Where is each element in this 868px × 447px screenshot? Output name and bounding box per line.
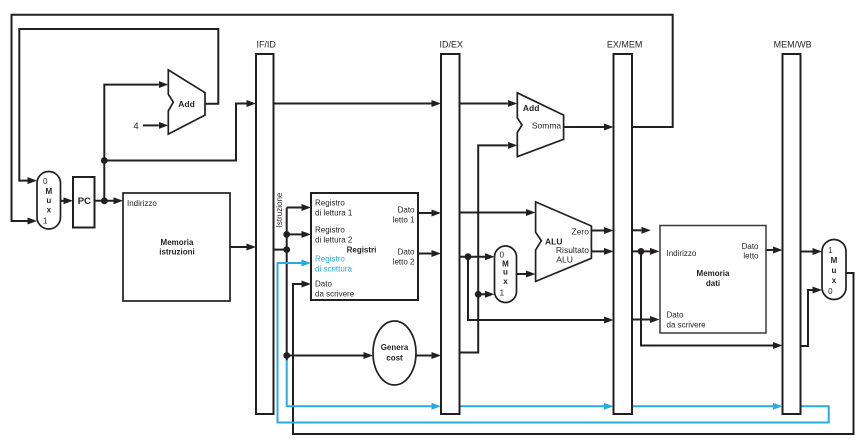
svg-text:di scrittura: di scrittura: [315, 265, 352, 274]
wire: IF/ID instruction output to bus: [274, 249, 287, 251]
wire: ID/EX to ALU top input: [460, 212, 527, 214]
wire: branch Add Somma output to EX/MEM: [564, 126, 604, 128]
wire: PC value to IF/ID: [104, 104, 246, 161]
wire: mux to PC: [61, 200, 64, 202]
junction immediate to mux: [475, 291, 482, 298]
wire: instruction to Registro di lettura 2: [287, 233, 302, 235]
wire: MEM/WB ALU result to WB mux input 0: [801, 290, 813, 346]
register PC: [73, 177, 95, 228]
svg-text:ALU: ALU: [556, 255, 573, 265]
svg-text:0: 0: [828, 287, 833, 296]
ALU: [536, 202, 592, 282]
svg-text:ID/EX: ID/EX: [439, 39, 463, 49]
svg-text:IF/ID: IF/ID: [256, 39, 276, 49]
wire: constant 4 to Add bottom input: [143, 124, 159, 126]
svg-text:dati: dati: [706, 279, 720, 288]
wire: PC value IF/ID to ID/EX: [274, 103, 432, 105]
svg-text:MEM/WB: MEM/WB: [774, 39, 812, 49]
wire: write register number cyan EX/MEM to MEM/WB: [632, 405, 773, 407]
svg-text:letto 1: letto 1: [393, 215, 415, 224]
wire: instruction to Genera cost: [287, 355, 364, 357]
register IF/ID: [256, 54, 274, 414]
junction PC output: [101, 197, 108, 204]
wire: ALU Zero to EX/MEM: [591, 230, 604, 232]
wire: Dato letto 2 branch to EX/MEM write data: [468, 257, 604, 320]
svg-text:EX/MEM: EX/MEM: [607, 39, 643, 49]
wire: PC+4 from Add back to PC mux input 0: [19, 29, 218, 181]
svg-text:letto: letto: [743, 252, 759, 261]
svg-text:Zero: Zero: [572, 226, 590, 236]
svg-text:Indirizzo: Indirizzo: [667, 249, 697, 258]
junction Dato letto 2: [465, 253, 472, 260]
svg-text:Dato: Dato: [398, 206, 415, 215]
junction instruction bus lettura 2: [283, 231, 290, 238]
svg-text:Istruzione: Istruzione: [275, 192, 284, 227]
svg-text:Registro: Registro: [315, 199, 345, 208]
svg-text:0: 0: [500, 251, 505, 260]
wire: write back data to Registri Dato da scrivere: [293, 273, 854, 434]
svg-text:Dato: Dato: [742, 242, 759, 251]
wire: branch target loop EX/MEM to PC mux input 1: [12, 15, 673, 221]
svg-text:u: u: [832, 266, 837, 275]
wire: MEM/WB Dato letto to WB mux input 1: [801, 251, 813, 253]
wire: instruction bus vertical: [286, 208, 288, 362]
wire: write register number cyan MEM/WB back to Registro di scrittura: [278, 263, 829, 423]
wire: Dato letto 2 to ID/EX: [418, 253, 432, 255]
register ID/EX: [441, 54, 460, 414]
wire: data memory Dato letto to MEM/WB: [766, 249, 773, 251]
adder Add (PC+4): [168, 70, 205, 134]
svg-text:Dato: Dato: [398, 248, 415, 257]
mux M1 (PC source): [37, 172, 61, 230]
svg-text:cost: cost: [386, 353, 403, 362]
svg-text:Registro: Registro: [315, 255, 345, 264]
block Memoria istruzioni: [123, 193, 230, 301]
wire: PC to instruction memory Indirizzo: [95, 200, 114, 202]
svg-text:Somma: Somma: [532, 121, 562, 131]
svg-text:M: M: [46, 187, 53, 196]
svg-text:Registro: Registro: [315, 226, 345, 235]
junction ALU result: [638, 248, 645, 255]
svg-text:Add: Add: [523, 103, 540, 113]
svg-text:da scrivere: da scrivere: [667, 320, 707, 329]
svg-text:x: x: [832, 276, 837, 285]
wire: ALU result to data memory Indirizzo: [632, 250, 650, 252]
junction on PC line to IF/ID: [101, 157, 108, 164]
svg-text:da scrivere: da scrivere: [315, 290, 355, 299]
svg-text:Add: Add: [178, 99, 195, 109]
svg-text:0: 0: [43, 177, 48, 186]
svg-text:letto 2: letto 2: [393, 257, 415, 266]
svg-text:1: 1: [500, 289, 505, 298]
wire: ID/EX Dato letto 2 to ALU mux input 0: [460, 256, 486, 258]
wire: Zero stub out of EX/MEM: [632, 229, 641, 231]
wire: write register number cyan to ID/EX: [287, 360, 432, 406]
svg-text:Memoria: Memoria: [697, 269, 730, 278]
wire: Genera cost output to ID/EX: [416, 355, 432, 357]
block Registri: [311, 193, 418, 300]
svg-text:4: 4: [133, 121, 138, 132]
wire: instruction to Registro di lettura 1: [287, 207, 302, 209]
junction instruction bus Genera cost: [283, 352, 290, 359]
svg-text:x: x: [47, 206, 52, 215]
svg-text:Registri: Registri: [347, 245, 377, 254]
svg-text:Genera: Genera: [381, 343, 409, 352]
mux M3 (write back): [822, 240, 846, 300]
mux M2 (ALU source): [495, 246, 517, 303]
wire: write register number cyan ID/EX to EX/MEM: [460, 405, 605, 407]
svg-text:M: M: [831, 256, 838, 265]
junction instruction bus IF/ID output: [283, 246, 290, 253]
wire: immediate to ALU mux input 1: [478, 293, 485, 295]
svg-text:PC: PC: [78, 196, 91, 207]
register EX/MEM: [614, 54, 633, 414]
svg-text:u: u: [46, 196, 51, 205]
wire: instruction memory output to IF/ID: [230, 246, 247, 248]
wire: ALU result bypass to MEM/WB: [641, 251, 773, 345]
adder Add (branch target): [517, 93, 563, 157]
block Memoria dati: [660, 226, 766, 334]
wire: write data to data memory: [632, 319, 650, 321]
svg-text:istruzioni: istruzioni: [159, 248, 195, 257]
svg-text:u: u: [503, 268, 508, 277]
svg-text:di lettura 1: di lettura 1: [315, 208, 353, 217]
wire: ALU mux output to ALU: [517, 273, 527, 275]
svg-text:Dato: Dato: [667, 311, 684, 320]
wire: Dato letto 1 to ID/EX: [418, 212, 432, 214]
wire: ALU result to EX/MEM: [591, 250, 604, 252]
svg-text:x: x: [503, 277, 508, 286]
svg-text:Memoria: Memoria: [161, 238, 194, 247]
svg-text:Dato: Dato: [315, 280, 332, 289]
wire: PC value up to Add top input: [104, 85, 159, 201]
svg-text:1: 1: [828, 246, 833, 255]
wire: ID/EX to branch Add top input: [460, 103, 508, 105]
block Genera cost (sign extend): [373, 321, 416, 385]
svg-text:1: 1: [43, 216, 48, 225]
wire: immediate from ID/EX up to branch Add bottom input: [460, 145, 508, 352]
svg-text:di lettura 2: di lettura 2: [315, 235, 353, 244]
register MEM/WB: [783, 54, 801, 414]
svg-text:Indirizzo: Indirizzo: [127, 199, 157, 208]
